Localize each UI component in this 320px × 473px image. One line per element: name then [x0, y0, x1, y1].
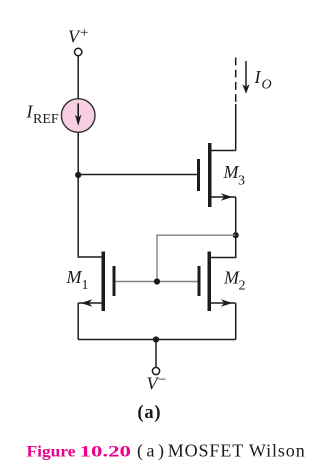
svg-text:(a): (a) — [137, 441, 164, 462]
transistor M2 — [198, 252, 246, 312]
svg-text:M: M — [223, 268, 240, 288]
node A — [75, 172, 81, 178]
feedback wire node B to gate node — [157, 235, 236, 281]
terminal V+ — [68, 25, 88, 56]
wire node A to M3 gate — [78, 174, 197, 176]
wire M3 source to node B — [235, 197, 237, 235]
svg-text:1: 1 — [82, 278, 89, 293]
svg-text:M: M — [66, 267, 83, 287]
current source IREF — [26, 99, 96, 133]
transistor M3 — [197, 143, 245, 207]
svg-text:I: I — [254, 67, 262, 87]
transistor M1 — [66, 252, 116, 312]
bottom rail — [78, 339, 236, 341]
svg-text:(a): (a) — [137, 403, 161, 423]
dashed output lead — [235, 58, 237, 105]
svg-text:10.20: 10.20 — [80, 444, 132, 461]
node D — [153, 336, 159, 342]
svg-text:3: 3 — [238, 174, 245, 189]
arrow IO — [242, 61, 249, 94]
wire node D to V- — [155, 340, 157, 368]
svg-text:V+: V+ — [68, 25, 88, 47]
node C — [154, 278, 160, 284]
svg-text:2: 2 — [239, 279, 246, 294]
svg-text:REF: REF — [33, 112, 59, 127]
wire M1 source down — [77, 303, 79, 340]
wire node B to M2 drain — [211, 235, 236, 257]
svg-text:Figure: Figure — [27, 444, 76, 461]
wire M2 source down — [235, 303, 237, 340]
terminal V- — [147, 367, 167, 393]
wire V+ to IREF — [77, 56, 79, 99]
label IO — [254, 67, 272, 93]
gate line M1-M2 — [116, 281, 198, 283]
svg-text:O: O — [262, 78, 272, 93]
wire M3 drain up — [235, 104, 237, 151]
wire node A down to M1 drain — [78, 175, 101, 257]
svg-text:M: M — [223, 162, 240, 182]
svg-text:MOSFET Wilson: MOSFET Wilson — [168, 441, 305, 461]
node B — [233, 232, 239, 238]
wire IREF to node A — [77, 132, 79, 175]
svg-text:V−: V− — [147, 372, 167, 394]
